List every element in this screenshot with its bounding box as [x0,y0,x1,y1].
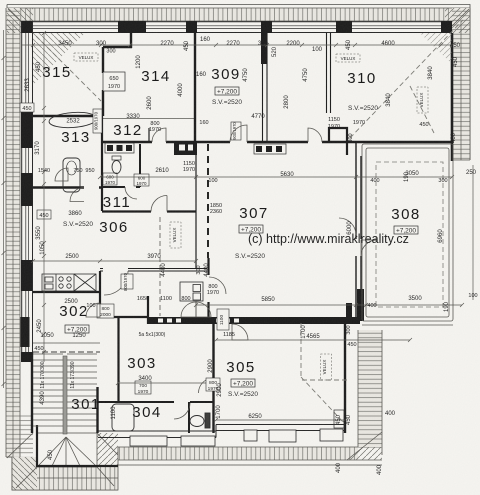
door 304 [174,403,190,419]
chimney block [174,142,197,155]
wall 315/314 vertical jog [130,33,132,48]
top wall piers [21,21,452,33]
dashed overhead wall x=208 [207,144,209,258]
dim line 5850/3500 [196,304,462,306]
stair enclosure walls [32,352,98,433]
top-left hip corner hatch [7,8,33,33]
hip lines [7,433,33,458]
door 305 top [232,324,248,340]
bathroom 311 walls [102,210,196,212]
corridor door arc right [209,277,226,294]
wc in small room [112,161,121,174]
corridor wall y=268 [100,269,207,272]
top dim chain [21,44,452,46]
hip line top-left [8,9,33,33]
wall under counter (302 top wall) [33,291,100,293]
303/304 wall [98,401,214,403]
top eave hatch band [7,8,470,21]
dimension texts misc [34,95,477,420]
800/2000 door box [97,304,114,318]
door arcs [55,125,377,419]
top exterior wall with windows [21,22,452,33]
304/305 inner wall [188,402,190,433]
bottom exterior wall [98,425,345,438]
door label box 650/1970 [103,72,125,91]
301 stair west wall [37,425,118,466]
toilet 304 [190,416,204,427]
partition x=328 in 310 [326,33,328,113]
value boxes [63,87,418,428]
dim line 4565 [216,339,410,341]
left exterior wall with windows [22,21,33,362]
wall 309/310 vertical (double thin with pier) [262,33,264,142]
dim line 2610/5630/3050 [100,176,452,178]
door 303 top [181,302,196,317]
door label 900/1970 rotated at 309 door [231,122,241,140]
305 east wall [344,324,346,433]
big horizontal wall above 303/305 [148,317,360,324]
rotated dimension texts [25,55,477,475]
wall 314/309 vertical [194,33,196,142]
roof corner hatch top-left [33,33,85,85]
right lower eave band (along 305 east wall) [345,330,382,460]
door arc wc [125,187,137,199]
rotated door label 900/1970 [93,109,102,133]
kitchen 307 squares [256,146,282,152]
wall 306/307 vertical [195,142,197,268]
washbasin row 311 [107,145,132,151]
bottom-left stair tower hatch [6,415,118,490]
stair center rail [63,356,67,434]
top-right hip corner hatch [445,8,470,33]
308 dashed roof rect [376,162,443,307]
303/305 dividing wall [212,324,214,433]
pier at 313 top right [97,110,103,116]
thin top line of 312 [103,118,196,120]
450 window label box on left wall [20,103,34,112]
right dim vertical [472,165,474,300]
door 314 in wall y142 [152,128,166,142]
kitchen 306 counter [42,274,96,291]
dim line 3400 [118,382,214,384]
left eave hatch band [6,8,20,457]
1100 door box [217,309,229,330]
wall bottom of 315 [33,115,103,117]
door 308 [361,240,377,256]
dimension lines with ticks [2,30,474,422]
door 309 in wall y142 [308,128,322,142]
door arc 313->306 [70,188,84,202]
corridor cabinet [180,282,203,301]
wall 313/312 vertical [101,116,103,211]
tub 304 [112,404,134,431]
right eave hatch band [452,8,470,160]
302 bottom dashed boundary [33,351,100,353]
tub in 313 [63,158,80,192]
far-left outer dim chain [3,30,5,388]
stairs 301 treads [33,354,97,426]
right exterior wall (310) [451,33,454,161]
door 302 [86,303,100,317]
dimension texts top row [58,37,460,78]
bottom eave hatch band (middle) [118,447,382,465]
308 wall pier [357,289,364,321]
308 terrace thin border [362,144,453,325]
303 left wall [117,317,119,402]
dim line 1250/1250 [33,342,100,344]
corridor door arc [104,271,128,295]
big horizontal wall under 312/309/310 [102,141,452,143]
door label boxes [103,173,117,185]
wall bottom of 313 [33,186,102,188]
wall segments left part above 303 [100,271,148,324]
dim line 2500/3970 [33,260,196,262]
small wc room walls [102,144,140,187]
dim bubble 2532 [49,111,98,129]
VELUX labels [74,53,428,380]
left dim chain [43,33,45,362]
entrance bay below stairs [37,433,97,467]
step wall in 310 lower-left [329,128,347,155]
dashed roof lines [36,20,463,423]
hip line top-right [445,9,469,33]
door arc 311 [151,196,167,212]
dim line 6250 [216,419,345,421]
left wall piers [21,111,33,362]
dashed line x=160 [159,217,161,316]
roof corner hatch top-right [420,33,452,64]
wall 307/308 vertical [355,142,357,322]
door 313 [55,168,68,181]
window sills bottom [130,429,343,446]
